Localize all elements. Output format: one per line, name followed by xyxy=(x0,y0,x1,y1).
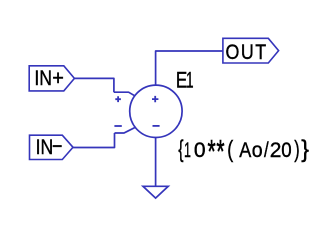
svg-text:0: 0 xyxy=(194,139,206,162)
wire E1 bottom to ground xyxy=(155,138,157,187)
svg-text:*: * xyxy=(208,133,216,170)
svg-text:1: 1 xyxy=(184,138,191,162)
svg-text:*: * xyxy=(216,133,224,170)
ground xyxy=(143,186,168,198)
wire IN- to E1 control xyxy=(73,133,115,148)
port IN+ xyxy=(29,66,74,91)
port OUT xyxy=(223,38,279,63)
E1 internal minus xyxy=(153,125,160,127)
wire E1 output to OUT xyxy=(156,51,223,85)
svg-text:2: 2 xyxy=(270,139,282,162)
svg-text:−: − xyxy=(52,135,62,159)
svg-text:{: { xyxy=(178,137,183,163)
E1 control minus marker xyxy=(114,125,121,127)
E1 control plus marker xyxy=(115,96,121,102)
svg-text:IN: IN xyxy=(36,136,54,160)
svg-text:0: 0 xyxy=(281,139,291,162)
svg-text:(: ( xyxy=(227,137,233,163)
E1 control stub top xyxy=(114,92,135,96)
svg-text:A: A xyxy=(239,139,252,163)
wire IN+ to E1 control xyxy=(74,78,114,92)
E1 source circle xyxy=(130,85,182,137)
svg-text:IN: IN xyxy=(34,66,52,90)
svg-text:}: } xyxy=(301,137,309,164)
svg-text:o: o xyxy=(252,140,263,163)
value label {10**(Ao/20)} xyxy=(178,133,309,170)
E1 control stub bottom xyxy=(115,127,136,133)
svg-text:): ) xyxy=(294,138,299,163)
svg-text:/: / xyxy=(264,140,269,163)
svg-text:+: + xyxy=(52,66,64,90)
svg-text:OUT: OUT xyxy=(226,41,268,65)
E1 internal plus xyxy=(152,96,158,102)
port IN- xyxy=(30,135,74,159)
svg-text:1: 1 xyxy=(186,67,194,92)
